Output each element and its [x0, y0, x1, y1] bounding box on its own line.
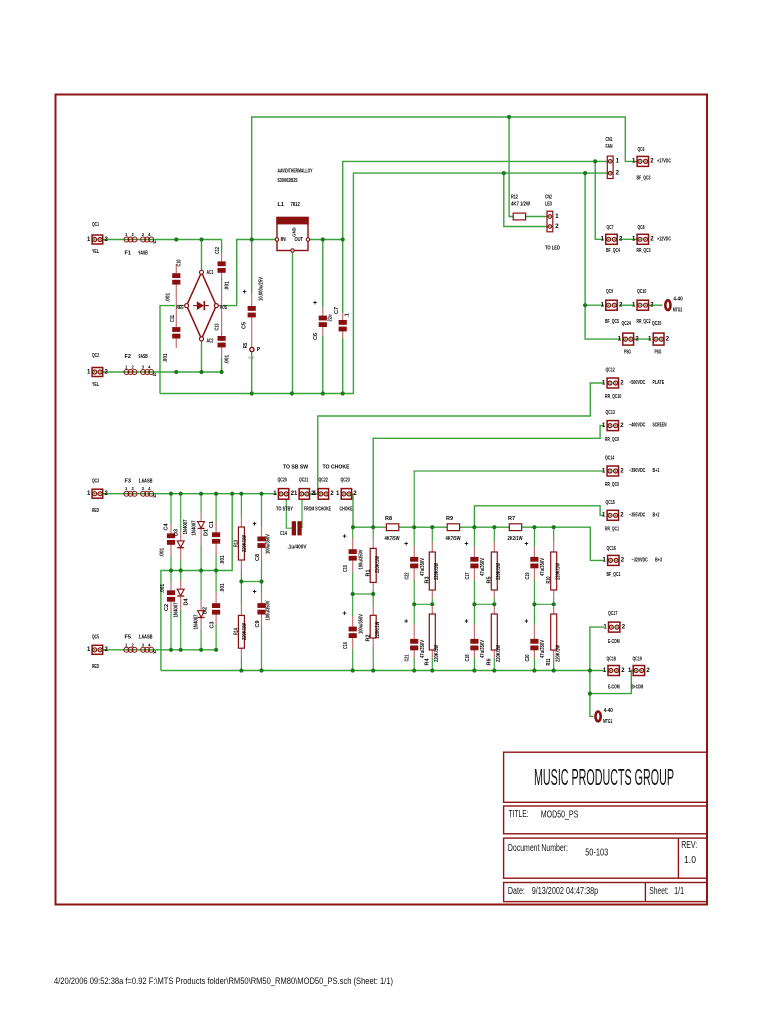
wire ground drop to QC24	[585, 173, 621, 339]
wire bottom common rail to QC18	[161, 670, 604, 672]
junction	[250, 237, 254, 241]
svg-text:REV:: REV:	[681, 840, 697, 851]
svg-text:220K/1W: 220K/1W	[434, 644, 440, 662]
svg-text:4-40: 4-40	[673, 297, 682, 303]
svg-text:47u/350V: 47u/350V	[540, 640, 546, 658]
junction	[179, 568, 183, 572]
connector QC16	[602, 546, 662, 578]
wire C5 column	[251, 240, 253, 394]
junction	[169, 568, 173, 572]
svg-text:2: 2	[666, 336, 670, 342]
svg-text:1: 1	[618, 336, 622, 342]
svg-text:MTG2: MTG2	[673, 308, 682, 314]
connector QC15	[602, 500, 660, 533]
wire B+2 tap to QC15	[474, 506, 603, 527]
svg-text:BF_QC5: BF_QC5	[605, 319, 619, 325]
svg-text:1: 1	[125, 365, 128, 370]
svg-text:C6: C6	[313, 333, 319, 340]
svg-text:QC9: QC9	[606, 289, 613, 295]
svg-text:C14: C14	[280, 531, 288, 537]
svg-text:C9: C9	[255, 620, 261, 627]
svg-text:2: 2	[621, 558, 625, 564]
svg-text:D2: D2	[203, 607, 209, 614]
svg-text:RR_QC9: RR_QC9	[605, 437, 619, 443]
junction	[214, 648, 218, 652]
svg-text:100u/350V: 100u/350V	[266, 600, 272, 620]
svg-text:QC25: QC25	[652, 321, 661, 327]
svg-text:+: +	[252, 521, 256, 528]
svg-text:2: 2	[555, 224, 559, 230]
svg-text:34: 34	[153, 650, 157, 655]
wire bridge NEG down to ground rail	[160, 306, 185, 394]
svg-text:1: 1	[601, 303, 605, 309]
svg-text:CN1: CN1	[606, 137, 613, 143]
svg-text:220K/1W: 220K/1W	[242, 622, 248, 640]
svg-text:220K/1W: 220K/1W	[434, 562, 440, 580]
wire AC1 into bridge	[201, 240, 203, 271]
svg-text:.1: .1	[345, 313, 351, 318]
junction	[239, 579, 243, 583]
svg-text:1N4007: 1N4007	[192, 521, 198, 536]
junction	[552, 668, 556, 672]
junction	[259, 668, 263, 672]
svg-text:B+1: B+1	[653, 468, 660, 474]
resistor R8	[385, 516, 401, 542]
svg-text:C11: C11	[170, 315, 176, 322]
wire R13/R14 column	[240, 494, 242, 671]
svg-text:220K/1W: 220K/1W	[555, 644, 561, 662]
svg-text:1: 1	[87, 491, 91, 497]
junction	[552, 602, 556, 606]
svg-text:2: 2	[620, 380, 624, 386]
svg-text:QC18: QC18	[607, 657, 616, 663]
svg-text:MOD50_PS: MOD50_PS	[541, 809, 579, 821]
svg-text:~320VDC: ~320VDC	[632, 557, 648, 563]
wire B+ filter rail to QC16	[353, 527, 604, 560]
capacitor C13 .001	[215, 324, 231, 365]
svg-text:4: 4	[148, 232, 151, 237]
svg-text:B+3: B+3	[655, 557, 662, 563]
svg-text:C21: C21	[405, 655, 411, 662]
svg-text:2: 2	[621, 668, 625, 674]
svg-text:~500VDC: ~500VDC	[629, 380, 645, 386]
svg-text:QC19: QC19	[633, 657, 642, 663]
capacitor C7 .1	[334, 307, 351, 338]
wire QC17 E-COM down to MTG1	[590, 627, 604, 716]
svg-text:1: 1	[602, 558, 606, 564]
junction	[492, 602, 496, 606]
junction	[290, 391, 294, 395]
junction	[588, 692, 592, 696]
connector QC12	[602, 368, 664, 401]
svg-text:TO STBY: TO STBY	[276, 507, 293, 513]
junction	[472, 525, 476, 529]
junction	[371, 668, 375, 672]
svg-text:.001: .001	[160, 584, 166, 593]
svg-text:QC8: QC8	[638, 225, 645, 231]
capacitor C11 .001	[163, 315, 180, 363]
wire filter column	[413, 527, 415, 670]
wire L1 GND to ground rail	[292, 251, 294, 394]
svg-text:1: 1	[601, 237, 605, 243]
junction	[588, 668, 592, 672]
connector QC20	[273, 478, 294, 513]
svg-text:R7: R7	[508, 516, 515, 522]
svg-text:1.6ASB: 1.6ASB	[139, 634, 153, 640]
svg-text:YEL: YEL	[92, 382, 99, 388]
capacitor C15 100u/350V	[342, 534, 364, 573]
svg-text:1: 1	[125, 642, 128, 647]
junction	[502, 171, 506, 175]
svg-text:QC15: QC15	[606, 500, 615, 506]
svg-text:+: +	[404, 619, 408, 626]
wire bridge AC2 down	[201, 341, 203, 372]
wire C22/C21 link	[414, 603, 432, 605]
svg-text:F1: F1	[125, 251, 131, 257]
junction	[583, 303, 587, 307]
wire filter column	[352, 527, 354, 670]
wire +17VDC tap to R12	[509, 117, 513, 217]
junction	[199, 568, 203, 572]
svg-text:+: +	[524, 619, 528, 626]
svg-text:YEL: YEL	[92, 249, 99, 255]
capacitor C10 .001	[166, 260, 183, 328]
svg-text:50-103: 50-103	[585, 847, 608, 859]
wire B+1 tap to QC14	[414, 471, 604, 527]
junction	[532, 668, 536, 672]
junction	[169, 648, 173, 652]
svg-text:B+2: B+2	[653, 512, 660, 518]
junction	[199, 370, 203, 374]
svg-text:.001: .001	[166, 293, 172, 302]
junction	[239, 668, 243, 672]
wire +12VDC to CN1 pin1	[343, 161, 610, 239]
wire QC1 to C12 corner (AC1 net)	[103, 239, 222, 241]
connector QC2	[87, 353, 109, 388]
wire E-COM loop to QC19	[590, 671, 635, 694]
svg-text:2: 2	[132, 486, 135, 491]
wire R12 to CN2 pin1	[526, 216, 548, 218]
wire doubler column lower	[215, 571, 217, 650]
svg-text:Sheet:: Sheet:	[649, 886, 669, 897]
junction	[430, 668, 434, 672]
svg-text:F3: F3	[125, 478, 131, 484]
svg-text:LED: LED	[545, 201, 552, 207]
connector QC3	[87, 478, 109, 514]
svg-text:R1: R1	[366, 569, 372, 576]
junction	[472, 602, 476, 606]
svg-text:L1: L1	[278, 202, 284, 208]
capacitor C9 100u/350V	[252, 589, 271, 628]
svg-text:+: +	[342, 534, 346, 541]
wire R13-C8 midpoint link	[241, 581, 261, 583]
svg-text:+: +	[252, 589, 256, 596]
wire filter column	[473, 527, 475, 670]
svg-text:.001: .001	[225, 355, 231, 364]
svg-text:2: 2	[620, 513, 624, 519]
wire C8/C9 column	[261, 494, 263, 671]
resistor R4 220K/1W	[425, 606, 440, 666]
svg-text:C16: C16	[343, 642, 349, 649]
svg-text:R5: R5	[243, 343, 249, 349]
wire QC3 to QC20 (HV AC net)	[103, 493, 277, 495]
svg-text:FROM S'CHOKE: FROM S'CHOKE	[304, 507, 331, 513]
junction	[351, 525, 355, 529]
svg-text:1: 1	[555, 214, 559, 220]
svg-text:4-40: 4-40	[604, 708, 613, 714]
svg-text:QC5: QC5	[92, 634, 99, 640]
svg-text:C18: C18	[465, 655, 471, 662]
svg-text:1: 1	[87, 647, 91, 653]
svg-text:7812: 7812	[291, 202, 300, 208]
wire +12VDC drop to QC7	[595, 161, 604, 239]
wire C19/C20 link	[534, 603, 553, 605]
connector CN2 LED	[545, 195, 560, 252]
svg-text:QC3: QC3	[92, 478, 99, 484]
svg-text:NEG: NEG	[177, 305, 184, 311]
svg-text:2: 2	[620, 468, 624, 474]
svg-text:1N4007: 1N4007	[183, 520, 189, 535]
svg-text:D1: D1	[204, 529, 210, 536]
wire QC9 pin2 to QC10 pin1	[619, 304, 635, 306]
svg-text:GND: GND	[291, 227, 297, 237]
svg-text:TITLE:: TITLE:	[509, 809, 529, 820]
svg-text:QC1: QC1	[92, 222, 99, 228]
schematic border frame	[56, 95, 708, 905]
svg-text:47u/350V: 47u/350V	[420, 558, 426, 576]
resistor R5 220K/1W	[487, 542, 502, 598]
svg-text:C2: C2	[164, 604, 170, 611]
wire doubler column lower	[170, 571, 172, 650]
svg-text:100u/350V: 100u/350V	[359, 614, 365, 634]
wire C6 column	[322, 240, 324, 394]
svg-text:47u/350V: 47u/350V	[420, 640, 426, 658]
junction	[351, 668, 355, 672]
svg-text:220K/1W: 220K/1W	[242, 534, 248, 552]
wire filter column	[533, 527, 535, 670]
wire doubler column upper	[170, 494, 172, 571]
wire bridge POS up to L1 IN	[216, 240, 277, 306]
svg-text:3: 3	[142, 232, 145, 237]
svg-text:B+COM: B+COM	[632, 685, 644, 691]
svg-text:2: 2	[622, 624, 626, 630]
wire C15/C16 link	[353, 593, 374, 595]
svg-text:QC20: QC20	[278, 478, 287, 484]
svg-text:1: 1	[125, 486, 128, 491]
svg-text:4K7/5W: 4K7/5W	[385, 536, 401, 542]
diode D4 1N4007	[174, 580, 190, 618]
svg-text:1: 1	[648, 336, 652, 342]
wire C17/C18 link	[474, 603, 494, 605]
svg-text:2: 2	[353, 491, 357, 497]
junction	[507, 115, 511, 119]
svg-text:2: 2	[132, 642, 135, 647]
svg-text:C1: C1	[209, 521, 215, 528]
wire doubler column upper	[200, 494, 202, 571]
junction	[412, 668, 416, 672]
svg-text:R6: R6	[487, 658, 493, 665]
svg-text:34: 34	[153, 494, 157, 499]
capacitor C18 47u/350V	[464, 619, 486, 662]
svg-text:9ASB: 9ASB	[139, 251, 148, 257]
svg-text:C19: C19	[525, 573, 531, 580]
junction	[412, 602, 416, 606]
junction	[220, 370, 224, 374]
svg-text:1: 1	[603, 668, 607, 674]
svg-text:QC2: QC2	[92, 353, 99, 359]
mounting hole MTG1	[596, 708, 613, 725]
svg-text:1: 1	[294, 491, 298, 497]
svg-text:C10: C10	[177, 260, 183, 267]
svg-text:RED: RED	[92, 664, 99, 670]
svg-text:RR_QC5: RR_QC5	[605, 482, 619, 488]
svg-text:RR_QC3: RR_QC3	[637, 248, 651, 254]
junction	[230, 492, 234, 496]
svg-text:1: 1	[603, 624, 607, 630]
wire doubler column lower	[180, 571, 182, 650]
svg-text:+: +	[524, 541, 528, 548]
svg-text:2: 2	[650, 237, 654, 243]
svg-text:+: +	[242, 289, 246, 296]
capacitor C14 .1u/400V	[280, 521, 307, 550]
wire filter column	[493, 527, 495, 670]
connector QC14	[602, 456, 660, 489]
wire +17VDC top run to QC6	[252, 117, 637, 240]
svg-text:QC6: QC6	[638, 147, 645, 153]
svg-text:.001: .001	[160, 548, 166, 557]
wire C7 column	[342, 240, 344, 394]
junction	[532, 525, 536, 529]
resistor R12	[511, 195, 531, 220]
svg-text:R12: R12	[511, 195, 518, 201]
svg-text:Date:: Date:	[508, 886, 525, 897]
svg-text:47u/350V: 47u/350V	[480, 558, 486, 576]
svg-text:100u/350V: 100u/350V	[266, 534, 272, 554]
svg-text:1: 1	[125, 232, 128, 237]
svg-text:100u/350V: 100u/350V	[359, 549, 365, 569]
svg-text:R11: R11	[546, 659, 552, 666]
svg-text:2: 2	[650, 159, 654, 165]
junction	[199, 648, 203, 652]
svg-text:R5: R5	[487, 576, 493, 583]
resistor R11 220K/1W	[546, 606, 561, 666]
svg-text:PLATE: PLATE	[653, 380, 665, 386]
svg-text:QC17: QC17	[608, 611, 617, 617]
svg-text:FAN: FAN	[606, 144, 613, 150]
wire QC20 pin2 to C14	[286, 496, 291, 528]
svg-text:2: 2	[620, 423, 624, 429]
wire QC7 pin2 to QC8 pin1	[619, 238, 637, 240]
svg-text:220K/1W: 220K/1W	[496, 562, 502, 580]
svg-text:R10: R10	[546, 577, 552, 584]
svg-text:1: 1	[336, 491, 340, 497]
junction	[430, 602, 434, 606]
svg-text:C22: C22	[405, 573, 411, 580]
fuse F5	[124, 634, 157, 654]
junction	[199, 492, 203, 496]
svg-text:530002B25: 530002B25	[278, 178, 298, 184]
svg-text:C20: C20	[525, 655, 531, 662]
junction	[199, 237, 203, 241]
resistor R2 220K/1W	[366, 606, 381, 648]
connector QC25	[648, 321, 670, 356]
svg-text:4: 4	[148, 486, 151, 491]
wire ground rail to CN1 pin2	[160, 173, 610, 393]
wire QC24 pin2 to QC25 pin1	[633, 338, 651, 340]
capacitor C22 47u/350V	[404, 541, 426, 580]
svg-text:220K/1W: 220K/1W	[496, 644, 502, 662]
svg-text:RR_QC2: RR_QC2	[637, 319, 651, 325]
connector QC21	[294, 478, 331, 513]
svg-text:C7: C7	[334, 307, 340, 314]
svg-text:1.6ASB: 1.6ASB	[139, 478, 153, 484]
svg-text:C13: C13	[215, 324, 221, 331]
svg-text:SCREEN: SCREEN	[653, 423, 667, 429]
connector QC22	[313, 478, 334, 500]
svg-text:3: 3	[142, 642, 145, 647]
resistor R14 220K/1W	[233, 605, 248, 658]
junction	[341, 237, 345, 241]
capacitor C3 .001	[210, 583, 227, 628]
svg-text:2: 2	[132, 232, 135, 237]
svg-text:QC22: QC22	[319, 478, 328, 484]
svg-text:QC7: QC7	[607, 225, 614, 231]
junction	[179, 492, 183, 496]
junction	[341, 391, 345, 395]
connector QC7	[601, 225, 623, 254]
svg-text:1/1: 1/1	[674, 886, 684, 897]
svg-text:AAVID/THERMALLOY: AAVID/THERMALLOY	[278, 169, 313, 175]
svg-text:RR_QC10: RR_QC10	[605, 394, 621, 400]
junction	[412, 525, 416, 529]
svg-text:3: 3	[142, 365, 145, 370]
svg-text:2: 2	[616, 171, 620, 177]
svg-text:1: 1	[602, 468, 606, 474]
svg-text:+17VDC: +17VDC	[657, 158, 671, 164]
svg-text:IN: IN	[281, 237, 286, 243]
svg-text:AC2: AC2	[207, 339, 214, 345]
fuse F3	[124, 478, 157, 498]
svg-text:1: 1	[87, 369, 91, 375]
svg-text:AC1: AC1	[207, 270, 214, 276]
wire plate rail to QC12	[318, 383, 604, 494]
junction	[214, 568, 218, 572]
svg-text:MUSIC PRODUCTS GROUP: MUSIC PRODUCTS GROUP	[534, 764, 674, 790]
svg-text:OUT: OUT	[295, 237, 304, 243]
svg-text:CN2: CN2	[545, 195, 552, 201]
svg-text:9ASB: 9ASB	[139, 354, 148, 360]
svg-text:220K/1W: 220K/1W	[375, 555, 381, 573]
svg-text:1N4007: 1N4007	[194, 615, 200, 630]
junction	[259, 492, 263, 496]
svg-text:.001: .001	[220, 555, 226, 564]
bridge rectifier PS1	[177, 270, 228, 345]
svg-text:4K7 1/2W: 4K7 1/2W	[511, 202, 531, 208]
svg-text:TO SB SW: TO SB SW	[283, 464, 308, 470]
svg-text:+: +	[313, 300, 317, 307]
svg-text:2K2/1W: 2K2/1W	[508, 536, 524, 542]
junction	[174, 370, 178, 374]
wire C12/C13 column	[221, 240, 223, 373]
svg-text:R8: R8	[385, 516, 392, 522]
svg-text:QC14: QC14	[605, 456, 615, 462]
svg-text:C3: C3	[210, 621, 216, 628]
junction	[532, 602, 536, 606]
svg-text:1: 1	[602, 423, 606, 429]
svg-text:P: P	[257, 347, 261, 353]
svg-text:1: 1	[602, 380, 606, 386]
wire screen tap to QC13	[373, 426, 604, 528]
